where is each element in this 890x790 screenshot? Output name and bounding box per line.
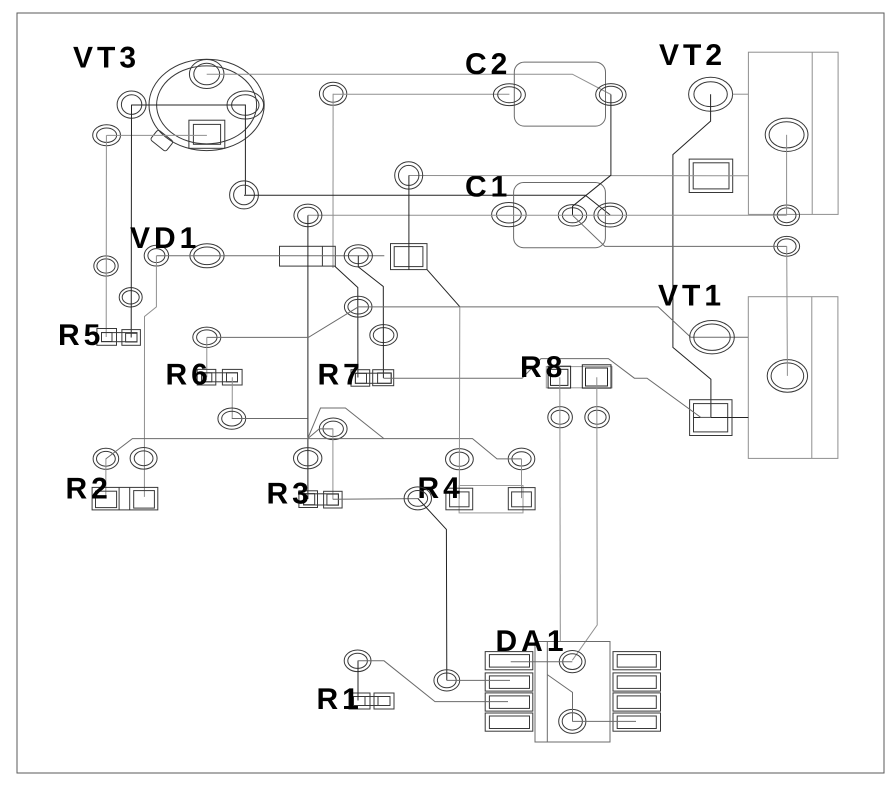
DA1 right pad 8 [613, 713, 661, 731]
resistor R2 pad 2 inner [134, 491, 155, 509]
IC DA1 body [535, 642, 610, 743]
wire pad E3 down to R2 pad1 [105, 459, 107, 499]
VT2 square pad [689, 159, 733, 192]
wire pad G1 to pad H1 [418, 498, 447, 680]
pad D3 (right of VD1) [344, 245, 372, 267]
VT3 pad 1 (top) [189, 60, 224, 89]
resistor R7 pad 2 [373, 370, 394, 386]
svg-text:R3: R3 [267, 478, 313, 511]
resistor R3 pad 2 [324, 491, 343, 508]
resistor R7 pad 1 [351, 370, 370, 387]
wire pad D3 to R7 pad2 [358, 256, 383, 378]
wire pad C4 down to VT1 hole [786, 246, 789, 376]
wire VT3 square to pad A2 [107, 134, 207, 136]
pad A3 [94, 256, 118, 276]
VT1 mounting hole [767, 360, 807, 393]
resistor R2 outline [92, 487, 158, 510]
resistor R1 pad 1 [349, 693, 370, 709]
VT2 pad (lead) [689, 77, 733, 111]
wire pad E7 down to R4 pad2 [521, 459, 523, 498]
C2 pad 1 [493, 84, 525, 106]
wire VT2 hole down to pad C3 [786, 135, 788, 216]
resistor R8 courtyard [546, 367, 612, 388]
pad A4 [119, 288, 142, 307]
wire DA1 inner to via bottom [547, 675, 572, 722]
R6 body [202, 373, 238, 382]
wire pad B2 long vertical [332, 94, 334, 268]
resistor R8 pad 2 [582, 365, 611, 388]
C1 pad 2 (middle) [558, 205, 586, 226]
resistor R5 pad 1 [97, 329, 117, 346]
VT2 mounting hole [765, 118, 808, 151]
DA1 right pad 7 [613, 693, 661, 711]
svg-text:VT1: VT1 [658, 280, 725, 313]
pad E6 [446, 449, 474, 470]
wire pad A1 to VT3 pad2 to pad B1 [132, 105, 246, 195]
VD1 pad 2 (big) [190, 244, 224, 268]
wire pad D2 long vertical [307, 215, 309, 499]
wire VT1 square center line [694, 417, 749, 419]
pad D2 (x307) [294, 204, 322, 227]
pad D7 [370, 325, 398, 346]
R1 body [354, 697, 391, 706]
wire R8 pad2 to DA1 pad [572, 377, 597, 660]
resistor R4 pad 2 [508, 488, 535, 510]
pad D1 (x408) [395, 162, 423, 189]
resistor R5 pad 2 [122, 330, 140, 346]
wire pad A1 down to R5 pad2 [130, 105, 132, 338]
pad D6 [344, 296, 372, 317]
svg-text:R1: R1 [317, 683, 363, 716]
wire junction to pad E2 [308, 429, 334, 439]
wire pad B1 to C1 right pad [244, 195, 610, 215]
R5 body [102, 333, 138, 342]
svg-text:R2: R2 [66, 473, 112, 506]
DA1 right pad 5 [613, 652, 661, 670]
DA1 left pad 4 [485, 713, 533, 731]
wire VD1 horizontal [156, 255, 384, 257]
wire C2 pad2 down to C1 middle [573, 95, 611, 216]
resistor R8 pad 1 [548, 366, 571, 388]
pad B2 (x333 top) [319, 82, 346, 105]
wire pad E2 down to R3 pad2 [332, 429, 334, 500]
resistor R1 pad 2 [374, 693, 394, 709]
pad E7 [508, 448, 535, 470]
wire square D4 to junction [427, 270, 460, 307]
wire R7 pad2 to R8 to VT1 square [383, 359, 711, 418]
pad C4 (x786 lower) [774, 236, 800, 256]
svg-text:R6: R6 [166, 359, 212, 392]
R7 body [355, 373, 391, 383]
svg-text:VD1: VD1 [130, 222, 200, 255]
DA1 left pad 2 [485, 673, 533, 691]
wire R6 pad2 down to pad E1 [231, 377, 233, 418]
wire VD1 corner to R7 pad1 [335, 266, 358, 377]
pad B1 [230, 181, 259, 209]
pad E3 [93, 448, 119, 469]
C1 pad 1 [492, 203, 527, 227]
wire pad B2 to C2 left pad [333, 93, 509, 95]
pad E1 [218, 408, 246, 429]
resistor R3 pad 1 [299, 491, 318, 508]
transistor VT1 body [748, 297, 838, 459]
wire R8 pad1 to DA1 body [559, 377, 562, 641]
wire junction down to R4 pad1 [458, 307, 461, 499]
pad A2 [93, 125, 121, 146]
pad D5 [193, 327, 221, 347]
transistor VT2 body [748, 52, 838, 214]
wire pad D5 to pad D6 [207, 307, 358, 338]
svg-text:R5: R5 [58, 319, 104, 352]
capacitor C1 outline [514, 183, 606, 248]
wire VT2 pad down to VT1 square [673, 94, 711, 417]
VT1 square pad [690, 400, 732, 436]
pad G1 [404, 487, 431, 510]
R3 body [304, 494, 339, 505]
wire pad H1 to DA1 pad2 [447, 679, 510, 681]
transistor VT3 outline [149, 59, 264, 150]
svg-text:DA1: DA1 [496, 625, 568, 658]
wire VT2 pad to body [733, 93, 749, 95]
pad C3 (x786 upper) [774, 205, 800, 226]
VT3 square pad [189, 120, 225, 148]
wire horizontal y307 [358, 307, 748, 337]
svg-text:C2: C2 [465, 48, 511, 81]
wire pad R1top down to R1 pad1 [357, 661, 359, 701]
wire pad D1 vertical [408, 175, 410, 269]
resistor R4 courtyard [459, 486, 523, 513]
resistor R4 pad 1 [446, 488, 473, 510]
resistor R6 pad 1 [197, 369, 216, 385]
DA1 left pad 3 [485, 693, 533, 711]
wire VD1 pad1 to R2 pad2 [144, 256, 156, 497]
wire pad A2 down to R5 pad1 [105, 135, 107, 337]
VT1 pad (lead) [690, 321, 735, 354]
pad E2 [319, 418, 347, 440]
svg-text:VT3: VT3 [73, 42, 140, 75]
pad H1 [434, 670, 460, 691]
C1 pad 3 (right) [594, 203, 627, 227]
pad E4 [130, 448, 157, 470]
wire long horizontal y215 [308, 214, 787, 216]
wire long horizontal y175 [409, 175, 749, 177]
VT3 pad 2 (right) [227, 91, 264, 119]
pad R1 top [344, 650, 371, 672]
pad F2 [585, 407, 610, 428]
C2 pad 2 [596, 84, 626, 106]
wire pad E1 to x307 [232, 418, 308, 420]
DA1 left pad 1 [485, 652, 533, 670]
svg-text:R7: R7 [318, 359, 364, 392]
wire R3 pad2 to pad G1 [333, 498, 418, 501]
DA1 via bottom [559, 709, 586, 733]
wire DA1 via bottom to pad8 [572, 720, 636, 722]
pad A1 [117, 91, 146, 118]
square pad D4 [391, 244, 428, 270]
capacitor C2 outline [514, 62, 605, 126]
VT3 key diamond [150, 129, 173, 151]
wire pad R1top to DA1 pad3 [358, 661, 508, 702]
resistor R6 pad 2 [222, 369, 242, 385]
wire hexagon around pad E2 [308, 408, 384, 439]
VD1 pad 1 [144, 245, 168, 266]
DA1 right pad 6 [613, 673, 661, 691]
wire pad D5 down to R6 pad1 [206, 337, 208, 377]
wire pad E3 long to pad E7 [106, 439, 522, 459]
wire VT3 top pad to C2 [207, 74, 611, 94]
DA1 via top [559, 651, 585, 673]
pad E5 [294, 448, 322, 469]
wire DA1 pad1 to via top [511, 661, 573, 663]
wire C1 middle to pad C4 [573, 215, 787, 246]
svg-text:VT2: VT2 [659, 39, 726, 72]
diode VD1 outline [280, 246, 336, 266]
resistor R2 pad 1 inner [96, 491, 117, 507]
pad F1 [548, 407, 573, 428]
